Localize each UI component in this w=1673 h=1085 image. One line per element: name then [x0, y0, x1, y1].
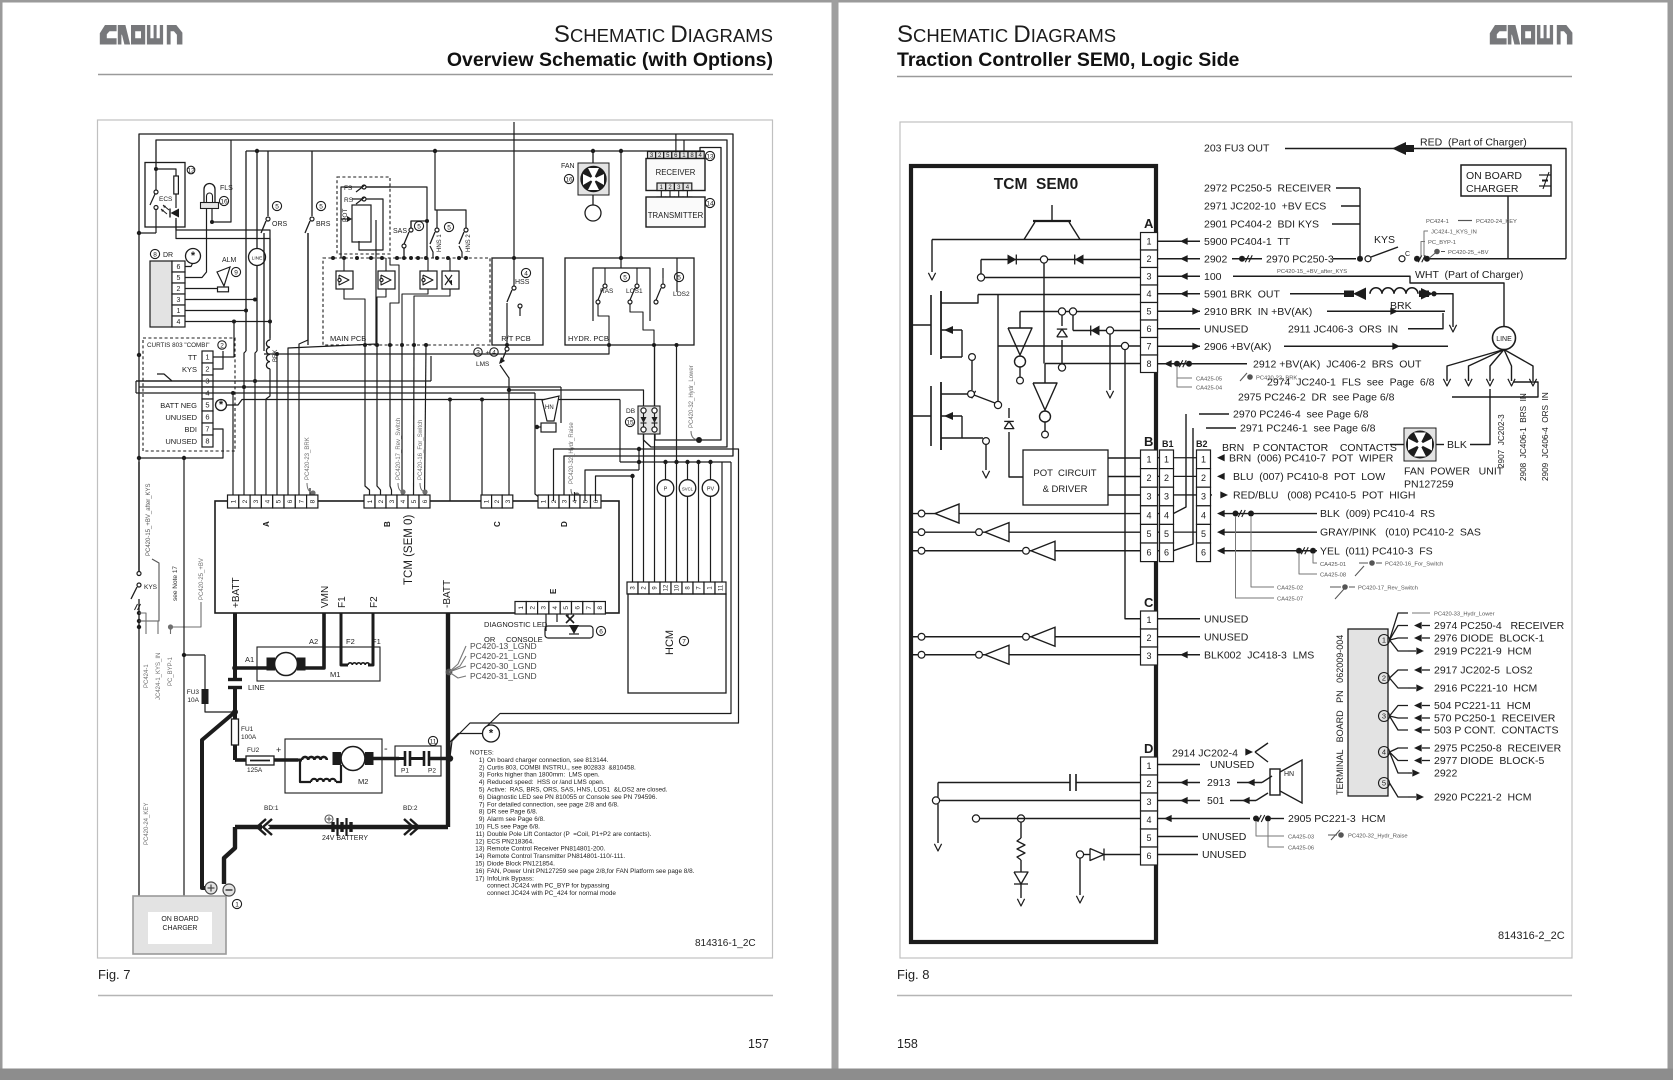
gray CA425-07 [1236, 516, 1345, 603]
wire BRS drop [311, 151, 313, 216]
svg-text:*: * [489, 728, 494, 740]
terminal board circles [1379, 635, 1390, 789]
svg-text:B2: B2 [1196, 439, 1208, 449]
svg-text:Diagnostic LED see PN 810055 o: Diagnostic LED see PN 810055 or Console … [487, 794, 657, 801]
fan unit icon [1404, 428, 1436, 461]
buffer row B4 [913, 504, 1141, 523]
svg-text:*: * [219, 399, 224, 411]
svg-text:504 PC221-11 HCM: 504 PC221-11 HCM [1434, 700, 1531, 712]
svg-text:2: 2 [378, 499, 385, 503]
svg-text:KYS: KYS [144, 584, 158, 591]
wire pot out2 [1108, 476, 1141, 478]
svg-text:F2: F2 [369, 596, 380, 608]
BD1 connector [257, 805, 279, 835]
svg-text:SCHEMATIC DIAGRAMS: SCHEMATIC DIAGRAMS [897, 21, 1116, 48]
svg-text:DB: DB [626, 408, 635, 415]
TCM SEM0 box [911, 166, 1156, 942]
label 2909 [1541, 392, 1550, 481]
svg-text:For detailed connection, see p: For detailed connection, see page 2/8 an… [487, 801, 619, 808]
svg-text:814316-2_2C: 814316-2_2C [1498, 930, 1565, 942]
left page subtitle [447, 49, 773, 71]
TCM pin row E [515, 602, 605, 615]
svg-text:FU3: FU3 [187, 689, 200, 696]
svg-text:PC420-13_LGND: PC420-13_LGND [470, 641, 537, 651]
wire LMS down [500, 365, 509, 501]
svg-text:2): 2) [479, 764, 485, 771]
row 203 FU3 [1204, 142, 1414, 155]
minus label [384, 743, 388, 755]
wire LOS2 D6 [676, 345, 678, 390]
svg-text:16): 16) [475, 868, 484, 875]
HN horn R [1270, 760, 1302, 803]
svg-text:3: 3 [1146, 492, 1151, 502]
right header rule [897, 76, 1572, 78]
receiver top pins [648, 152, 705, 160]
svg-text:RED (Part of Charger): RED (Part of Charger) [1420, 137, 1527, 149]
charger label R [1466, 170, 1522, 195]
wire FLS right [210, 140, 231, 224]
TCM box [215, 501, 619, 613]
TCM -BATT label [442, 580, 453, 608]
wire thick diag [202, 712, 235, 884]
svg-text:1: 1 [367, 499, 374, 503]
P1 contact [399, 751, 419, 775]
wire D2 cap [938, 774, 1141, 791]
wire SAS top [433, 149, 437, 153]
wire A8 stub [309, 488, 311, 501]
circled 5 RAS-LOS1 [620, 272, 629, 281]
charger box R [1461, 165, 1551, 196]
svg-text:FAN: FAN [561, 163, 575, 170]
svg-text:DIAGNOSTIC LED: DIAGNOSTIC LED [484, 620, 548, 629]
svg-text:FAN, Power Unit PN127259 see p: FAN, Power Unit PN127259 see page 2/8,fo… [487, 868, 695, 875]
right page number [897, 1037, 918, 1051]
main pcb amp 1 [336, 271, 353, 289]
HSS switch [507, 258, 530, 345]
svg-text:PC420-33_Hydr_Lower: PC420-33_Hydr_Lower [1434, 612, 1495, 618]
svg-text:10: 10 [675, 584, 681, 591]
diag X mark [566, 615, 574, 623]
DR label [150, 249, 173, 259]
gray riser [1439, 250, 1441, 259]
HYDR PCB box [565, 258, 694, 345]
right page subtitle [897, 49, 1240, 71]
svg-text:7): 7) [479, 801, 485, 808]
wire LINE-A3 [255, 351, 257, 501]
row B2-2 [1217, 471, 1385, 483]
wire HCM pin7 riser [698, 462, 700, 582]
wire hydr drop [620, 151, 622, 258]
wire top bus 1 [139, 134, 733, 571]
C column label [1144, 595, 1154, 610]
svg-text:A: A [262, 521, 271, 527]
label after_KYS gray [1277, 269, 1347, 275]
svg-text:11): 11) [476, 831, 485, 838]
tb label 2920 [1408, 792, 1531, 804]
svg-text:HSS: HSS [515, 279, 530, 286]
wire D5 riser [585, 470, 639, 501]
svg-text:CA425-03: CA425-03 [1288, 835, 1314, 841]
svg-text:TRANSMITTER: TRANSMITTER [648, 211, 704, 220]
B1-B2 links [1174, 458, 1197, 532]
svg-text:1: 1 [177, 308, 181, 315]
charger battery symbol [1539, 172, 1551, 189]
TCM row A label [262, 521, 271, 527]
wire POT A6 [288, 250, 376, 501]
svg-text:5: 5 [411, 499, 418, 503]
svg-text:5900 PC404-1 TT: 5900 PC404-1 TT [1204, 236, 1291, 248]
svg-text:P1: P1 [401, 768, 409, 775]
tb label 2919 [1408, 646, 1531, 658]
svg-text:2910 BRK IN +BV(AK): 2910 BRK IN +BV(AK) [1204, 306, 1312, 318]
row A5 BRKIN [1158, 306, 1446, 318]
svg-text:14): 14) [475, 853, 484, 860]
svg-text:ORS: ORS [272, 221, 288, 228]
wire HCM pin3 riser [632, 476, 634, 582]
TCM pin row A [228, 495, 318, 508]
RT PCB box [492, 258, 543, 345]
svg-text:501: 501 [1207, 795, 1225, 807]
diode A6 [1091, 326, 1100, 336]
svg-text:7: 7 [682, 638, 686, 645]
wire row 387b [139, 386, 561, 388]
charger stub [1507, 196, 1509, 259]
svg-text:Remote Control Receiver PN8148: Remote Control Receiver PN814801-200. [487, 846, 606, 853]
svg-text:2919 PC221-9 HCM: 2919 PC221-9 HCM [1434, 646, 1531, 658]
wire top bus 2 [156, 140, 727, 447]
svg-text:2972 PC250-5 RECEIVER: 2972 PC250-5 RECEIVER [1204, 183, 1332, 195]
wire HCM pin9 riser [654, 434, 656, 582]
wire A3 [977, 274, 1140, 281]
wire P [665, 462, 667, 582]
svg-text:3: 3 [1164, 492, 1169, 502]
buffer row C3 [913, 645, 1141, 664]
svg-text:RED/BLU (008) PC410-5 POT: RED/BLU (008) PC410-5 POT HIGH [1233, 489, 1415, 501]
svg-text:PC424-1: PC424-1 [1426, 219, 1449, 225]
svg-text:3): 3) [479, 772, 485, 779]
tb label 2975 [1414, 743, 1562, 755]
svg-text:5: 5 [1146, 306, 1151, 316]
svg-text:HN: HN [545, 405, 554, 411]
svg-text:6: 6 [1164, 548, 1169, 558]
M1 field coil [348, 663, 369, 665]
svg-text:6: 6 [1146, 851, 1151, 861]
row 2971 [1204, 201, 1360, 213]
svg-text:BDI: BDI [184, 425, 197, 434]
wire A1 drop [231, 379, 257, 501]
svg-text:814316-1_2C: 814316-1_2C [695, 938, 756, 949]
svg-text:P: P [664, 487, 668, 493]
svg-text:SAS: SAS [393, 228, 407, 235]
svg-text:KYS: KYS [182, 365, 197, 374]
wire HCM11 drop [721, 462, 723, 582]
svg-text:1: 1 [1201, 455, 1206, 465]
svg-text:Fig. 7: Fig. 7 [98, 967, 131, 982]
svg-text:R/T PCB: R/T PCB [501, 334, 530, 343]
2914 breakout [1255, 743, 1268, 762]
row B2-1 [1211, 452, 1394, 464]
svg-text:4: 4 [1382, 748, 1386, 757]
svg-text:203 FU3 OUT: 203 FU3 OUT [1204, 143, 1270, 155]
svg-text:LINE: LINE [252, 256, 263, 262]
FLS lamp bulb [204, 184, 215, 203]
wire A8 [1045, 364, 1141, 384]
tb label 2917 [1414, 665, 1533, 677]
svg-text:158: 158 [897, 1037, 918, 1051]
svg-text:-: - [384, 743, 388, 755]
wire D1 drop [535, 393, 540, 501]
row A1 TT [1158, 236, 1291, 248]
svg-text:PC420-32_Hydr_Raise: PC420-32_Hydr_Raise [1348, 834, 1408, 840]
main pcb inner wires 7 [426, 258, 433, 345]
svg-text:5: 5 [1382, 779, 1386, 788]
svg-text:12: 12 [664, 584, 670, 591]
svg-text:TCM SEM0: TCM SEM0 [994, 176, 1078, 193]
svg-text:1: 1 [230, 499, 237, 503]
svg-text:4: 4 [524, 270, 528, 277]
svg-text:DR: DR [163, 252, 173, 259]
svg-text:4): 4) [479, 779, 485, 786]
row D5 [1158, 831, 1247, 843]
circled 5 HNS [444, 222, 453, 231]
label 2907 [1497, 414, 1506, 468]
charger minus terminal [223, 884, 235, 896]
wire D6 diode [1076, 849, 1157, 904]
svg-text:PC420-24_KEY: PC420-24_KEY [1476, 219, 1517, 225]
page divider bar [832, 0, 839, 1080]
A1 label [245, 655, 254, 664]
svg-text:4: 4 [572, 499, 579, 503]
row DR [1238, 392, 1452, 404]
svg-text:7: 7 [1146, 341, 1151, 351]
svg-text:UNUSED: UNUSED [1204, 631, 1249, 643]
svg-text:100: 100 [1204, 271, 1222, 283]
LINE coil [249, 249, 266, 266]
svg-text:UNUSED: UNUSED [1202, 849, 1247, 861]
row D1 [1158, 759, 1255, 771]
svg-text:TT: TT [188, 353, 198, 362]
row C1 text [1158, 613, 1249, 625]
FS switch [344, 185, 390, 192]
wire FS-SAS link [411, 219, 429, 228]
wire B2 drop [377, 345, 381, 501]
svg-text:PC420-16_For_Switch: PC420-16_For_Switch [418, 420, 424, 480]
label 2908 [1519, 393, 1528, 481]
wire VMN [306, 613, 325, 668]
diag wires [546, 614, 568, 632]
svg-text:VMN: VMN [320, 586, 331, 608]
svg-text:PC420-16_For_Switch: PC420-16_For_Switch [1385, 562, 1443, 568]
wire B6 drop [425, 345, 427, 501]
svg-text:8: 8 [1146, 359, 1151, 369]
wire POT bottom [359, 220, 376, 250]
junction hydr top [619, 149, 623, 153]
svg-text:BD:2: BD:2 [403, 805, 418, 812]
svg-text:BLK: BLK [1447, 439, 1467, 451]
M1 motor [267, 653, 306, 676]
TCM row C label [493, 521, 502, 527]
svg-text:P2: P2 [428, 768, 436, 775]
svg-text:connect JC424 with PC_BYP for: connect JC424 with PC_BYP for bypassing [487, 883, 610, 890]
BRS switch [305, 217, 331, 345]
wire A2 [981, 260, 1141, 275]
svg-text:24V BATTERY: 24V BATTERY [322, 835, 368, 842]
svg-text:5901 BRK OUT: 5901 BRK OUT [1204, 288, 1280, 300]
svg-text:2970 PC250-3: 2970 PC250-3 [1266, 253, 1334, 265]
svg-text:TERMINAL BOARD PN 062009: TERMINAL BOARD PN 062009-004 [1335, 635, 1345, 795]
junction RT top [0, 0, 1, 1]
svg-text:6: 6 [287, 499, 294, 503]
ALM label [222, 257, 237, 264]
circled 5 BRS [316, 201, 325, 210]
LINE circle R [1493, 327, 1516, 350]
MAIN PCB label [330, 334, 366, 343]
svg-text:PC420-17_Rev_Switch: PC420-17_Rev_Switch [396, 418, 402, 480]
svg-text:2970 PC246-4 see Page 6/8: 2970 PC246-4 see Page 6/8 [1233, 409, 1369, 421]
wire RED [1414, 149, 1566, 259]
wire curtis tt [213, 320, 236, 358]
row 2901 [1204, 219, 1360, 231]
svg-text:5: 5 [447, 224, 451, 231]
B-B1 links [1158, 458, 1160, 551]
svg-text:HNS 1: HNS 1 [437, 234, 443, 252]
wire B1 drop [365, 345, 370, 501]
svg-text:4: 4 [552, 606, 559, 610]
svg-text:1: 1 [484, 499, 491, 503]
B column label [1144, 434, 1208, 449]
DR body [150, 261, 172, 327]
HCM pin row [627, 582, 726, 594]
svg-text:5: 5 [1164, 529, 1169, 539]
svg-text:1: 1 [1146, 761, 1151, 771]
viewer top border [0, 0, 1673, 3]
tb label 2977 [1414, 755, 1544, 767]
main pcb top dots [331, 256, 468, 260]
A column label [1144, 216, 1154, 231]
LOS1 switch [626, 278, 643, 321]
svg-text:6: 6 [593, 499, 600, 503]
left header small-caps title [554, 21, 773, 48]
junction fan top [591, 149, 595, 153]
svg-text:12: 12 [187, 167, 195, 174]
main pcb inner wires 2 [344, 289, 365, 345]
right drawing number [1498, 930, 1565, 942]
svg-text:4: 4 [1146, 510, 1151, 520]
wire left bus low [137, 353, 141, 571]
svg-text:6: 6 [422, 499, 429, 503]
svg-text:1: 1 [205, 353, 209, 362]
wire row 354 [264, 345, 609, 354]
svg-text:-BATT: -BATT [442, 580, 453, 608]
notes text block [470, 750, 695, 898]
svg-text:BLU (007) PC410-8 POT LOW: BLU (007) PC410-8 POT LOW [1233, 471, 1385, 483]
main pcb inner wires 1 [344, 258, 450, 271]
svg-text:4: 4 [1146, 815, 1151, 825]
svg-text:JC424-1_KYS_IN: JC424-1_KYS_IN [1431, 230, 1477, 236]
svg-text:2908 JC406-1 BRS IN: 2908 JC406-1 BRS IN [1519, 393, 1528, 481]
svg-text:C: C [1405, 251, 1410, 258]
M1 F2 label [346, 637, 355, 646]
right header small-caps title [897, 21, 1116, 48]
svg-text:2909 JC406-4 ORS IN: 2909 JC406-4 ORS IN [1541, 392, 1550, 481]
wire A6 [1073, 315, 1141, 330]
svg-text:B: B [383, 521, 392, 527]
svg-text:CA425-08: CA425-08 [1320, 573, 1346, 579]
center diode chain [1057, 315, 1067, 371]
svg-text:C: C [1144, 595, 1154, 610]
gray PC424-1 [1426, 219, 1517, 225]
svg-text:DR see Page 6/8.: DR see Page 6/8. [487, 809, 538, 816]
svg-text:LOS2: LOS2 [673, 291, 690, 298]
svg-text:17): 17) [475, 875, 484, 882]
svg-text:PC420-32_Hydr_Lower: PC420-32_Hydr_Lower [689, 365, 695, 428]
M2 series coil [298, 757, 327, 760]
wire collector [1359, 188, 1361, 256]
hydr top wires [593, 268, 663, 278]
wire LOS2 down [676, 345, 678, 476]
svg-text:5: 5 [677, 274, 681, 281]
charger box [133, 896, 226, 954]
rx-tx wires [661, 191, 687, 198]
wire D2 wrap [450, 447, 739, 757]
svg-text:TCM (SEM 0): TCM (SEM 0) [403, 515, 415, 585]
svg-text:ALM: ALM [222, 257, 237, 264]
left header rule [98, 74, 773, 76]
svg-text:1: 1 [1146, 615, 1151, 625]
svg-text:M1: M1 [330, 670, 340, 679]
main pcb inner wires 5 [402, 289, 428, 345]
svg-text:2922: 2922 [1434, 768, 1458, 780]
receiver bottom pins [657, 183, 692, 191]
wire A5 drop [275, 352, 279, 501]
LOS2 switch [654, 258, 690, 347]
svg-text:5: 5 [563, 606, 570, 610]
wire -BATT [446, 613, 450, 759]
LGND fan dot [446, 669, 453, 676]
wire ORS down [263, 233, 265, 354]
wire B5 drop [413, 345, 416, 501]
svg-text:F2: F2 [346, 637, 355, 646]
RT PCB junctions [505, 256, 516, 347]
ALM horn [217, 267, 230, 292]
crown logo right [1490, 25, 1573, 45]
wire pot out3 [1108, 494, 1141, 496]
svg-text:5: 5 [276, 499, 283, 503]
svg-text:2914 JC202-4: 2914 JC202-4 [1172, 748, 1238, 760]
SAS label [393, 221, 424, 235]
svg-text:*: * [191, 250, 196, 262]
row D3 [1158, 793, 1269, 807]
svg-text:CA425-05: CA425-05 [1196, 377, 1222, 383]
svg-text:2975 PC250-8 RECEIVER: 2975 PC250-8 RECEIVER [1434, 743, 1562, 755]
wire 639 link [637, 449, 641, 470]
wire D4 stub [574, 492, 576, 501]
RS switch [344, 197, 383, 250]
svg-text:CA425-04: CA425-04 [1196, 386, 1223, 392]
svg-text:2: 2 [494, 499, 501, 503]
DB block [638, 406, 660, 434]
label LGND 31 [449, 671, 537, 681]
tb fan 4 [1390, 748, 1409, 773]
D column label [1144, 741, 1153, 756]
circled 11 [428, 736, 437, 745]
svg-text:5: 5 [1146, 833, 1151, 843]
svg-text:2: 2 [1201, 473, 1206, 483]
DB label [625, 408, 635, 427]
svg-text:BD:1: BD:1 [264, 805, 279, 812]
svg-text:2: 2 [1146, 473, 1151, 483]
svg-text:Curtis 803, COMBI INSTRU., see: Curtis 803, COMBI INSTRU., see 802833 &8… [487, 764, 636, 771]
